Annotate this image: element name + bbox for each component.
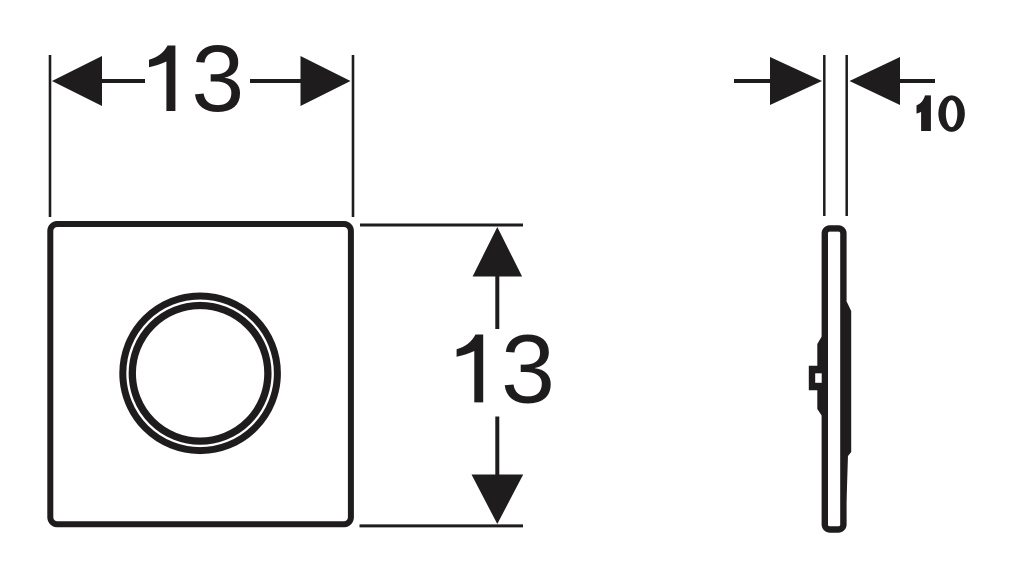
width dimension: left line segment: [101, 79, 145, 83]
svg-text:3: 3: [501, 314, 555, 423]
height dimension label "13": digit 1: [457, 335, 484, 403]
side view: mounting clip: [809, 366, 822, 391]
thickness dimension label "10": digit 1: [917, 95, 931, 131]
side view: plate profile outline: [825, 228, 844, 529]
front view: button outer ring: [123, 296, 278, 451]
height dimension: lower line segment: [495, 417, 499, 476]
side view: lower right wall taper: [846, 455, 848, 518]
width dimension: left arrowhead: [52, 56, 102, 106]
width dimension label "13": digit 1: [149, 46, 175, 112]
side view: rear mounting boss: [841, 302, 852, 457]
thickness dimension: left leader line: [734, 79, 770, 83]
height dimension: top extension line: [360, 224, 523, 227]
width dimension: left extension line: [49, 55, 52, 217]
width dimension: right extension line: [352, 55, 355, 217]
front view: plate outline: [50, 224, 351, 524]
thickness dimension: left extension line: [823, 55, 826, 216]
thickness dimension: left arrowhead: [770, 57, 822, 105]
width dimension: right line segment: [250, 79, 301, 83]
thickness dimension label "10": digit 0: [938, 95, 965, 132]
svg-text:3: 3: [191, 26, 244, 132]
side view: clip notch: [815, 373, 822, 383]
front view: button inner ring: [132, 306, 268, 442]
height dimension: top arrowhead: [473, 227, 522, 277]
thickness dimension: right arrowhead: [850, 57, 901, 105]
width dimension: right arrowhead: [301, 56, 351, 106]
thickness dimension: right leader line: [900, 79, 935, 83]
height dimension: bottom arrowhead: [472, 475, 524, 525]
side view: front face bump: [817, 334, 827, 418]
thickness dimension: right extension line: [845, 55, 848, 216]
height dimension: upper line segment: [495, 276, 499, 329]
thickness dimension label "10": digit 0 counter: [946, 100, 958, 127]
height dimension: bottom extension line: [360, 524, 524, 527]
